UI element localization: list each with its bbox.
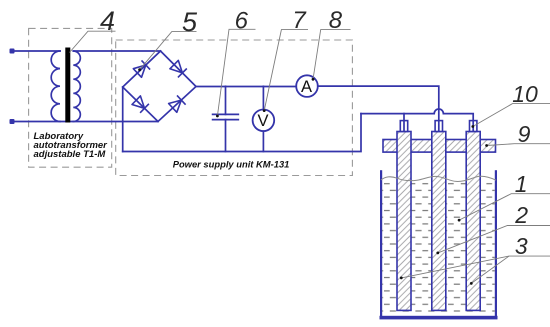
svg-text:8: 8 (329, 7, 343, 34)
svg-text:adjustable T1-M: adjustable T1-M (34, 149, 107, 160)
svg-text:10: 10 (512, 81, 538, 107)
svg-text:V: V (257, 112, 268, 130)
svg-text:2: 2 (514, 202, 528, 228)
svg-text:4: 4 (100, 6, 115, 36)
svg-text:5: 5 (182, 7, 198, 37)
svg-text:Power supply unit KM-131: Power supply unit KM-131 (173, 159, 290, 170)
svg-text:6: 6 (235, 8, 249, 35)
svg-text:A: A (301, 78, 312, 96)
svg-text:9: 9 (518, 121, 531, 147)
svg-text:1: 1 (515, 171, 528, 197)
svg-text:7: 7 (292, 7, 307, 34)
svg-text:3: 3 (515, 233, 528, 259)
